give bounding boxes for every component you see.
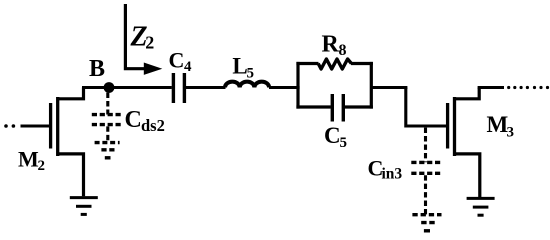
- svg-text:ds2: ds2: [141, 116, 165, 135]
- svg-text:4: 4: [184, 59, 192, 75]
- svg-text:8: 8: [339, 42, 347, 59]
- svg-text:R: R: [322, 32, 340, 58]
- svg-text:in3: in3: [382, 166, 403, 183]
- dashed ground (Cds2): [95, 143, 120, 158]
- svg-text:M: M: [487, 112, 509, 137]
- parasitic capacitor Cin3 (dashed): [424, 128, 427, 215]
- svg-text:5: 5: [340, 135, 348, 151]
- svg-text:B: B: [89, 56, 105, 82]
- RC block right edge: [370, 62, 373, 109]
- M2 source lead: [57, 154, 84, 196]
- M2 drain lead: [57, 88, 84, 99]
- wire C4 to L5: [186, 86, 226, 89]
- capacitor C4: [173, 73, 184, 103]
- parasitic capacitor Cds2 (dashed): [106, 93, 109, 143]
- svg-text:5: 5: [247, 65, 255, 81]
- M2 gate lead dots: [4, 124, 15, 128]
- RC block top wire (left of R8): [296, 62, 318, 65]
- wire step down: [406, 88, 446, 127]
- RC block bottom wire (right of C5): [345, 105, 373, 108]
- wire L5 to RC block: [269, 86, 300, 89]
- svg-text:2: 2: [38, 158, 46, 174]
- resistor R8 zigzag: [318, 59, 351, 69]
- transistor M2: [4, 88, 83, 197]
- M3 drain continuation dots: [507, 86, 549, 89]
- M3 source lead: [453, 154, 480, 197]
- M3 gate bar: [446, 103, 449, 149]
- impedance arrow Z2: [125, 4, 144, 69]
- capacitor C5: [332, 94, 343, 122]
- wire node B to C4: [82, 86, 172, 89]
- M3 channel bar: [453, 97, 456, 156]
- svg-text:M: M: [18, 147, 39, 172]
- ground (M2 source): [70, 198, 98, 215]
- node B junction dot: [104, 82, 115, 93]
- inductor L5: [225, 82, 269, 88]
- svg-text:3: 3: [507, 125, 515, 141]
- svg-text:2: 2: [145, 33, 154, 53]
- svg-text:L: L: [232, 54, 247, 79]
- M3 drain top wire: [478, 86, 504, 89]
- M3 drain lead: [453, 88, 479, 99]
- svg-text:C: C: [169, 47, 185, 72]
- dashed ground (Cin3): [412, 215, 441, 231]
- RC block left edge: [296, 62, 299, 109]
- RC block top wire (right of R8): [351, 62, 373, 65]
- RC block bottom wire (left of C5): [296, 105, 330, 108]
- M2 gate bar: [49, 103, 52, 149]
- transistor M3: [448, 88, 480, 198]
- svg-text:C: C: [125, 107, 142, 133]
- M2 gate wire: [21, 125, 51, 128]
- M2 channel bar: [56, 97, 59, 156]
- svg-text:C: C: [324, 123, 341, 148]
- wire RC block to step: [371, 86, 407, 89]
- ground (M3 source): [467, 198, 495, 215]
